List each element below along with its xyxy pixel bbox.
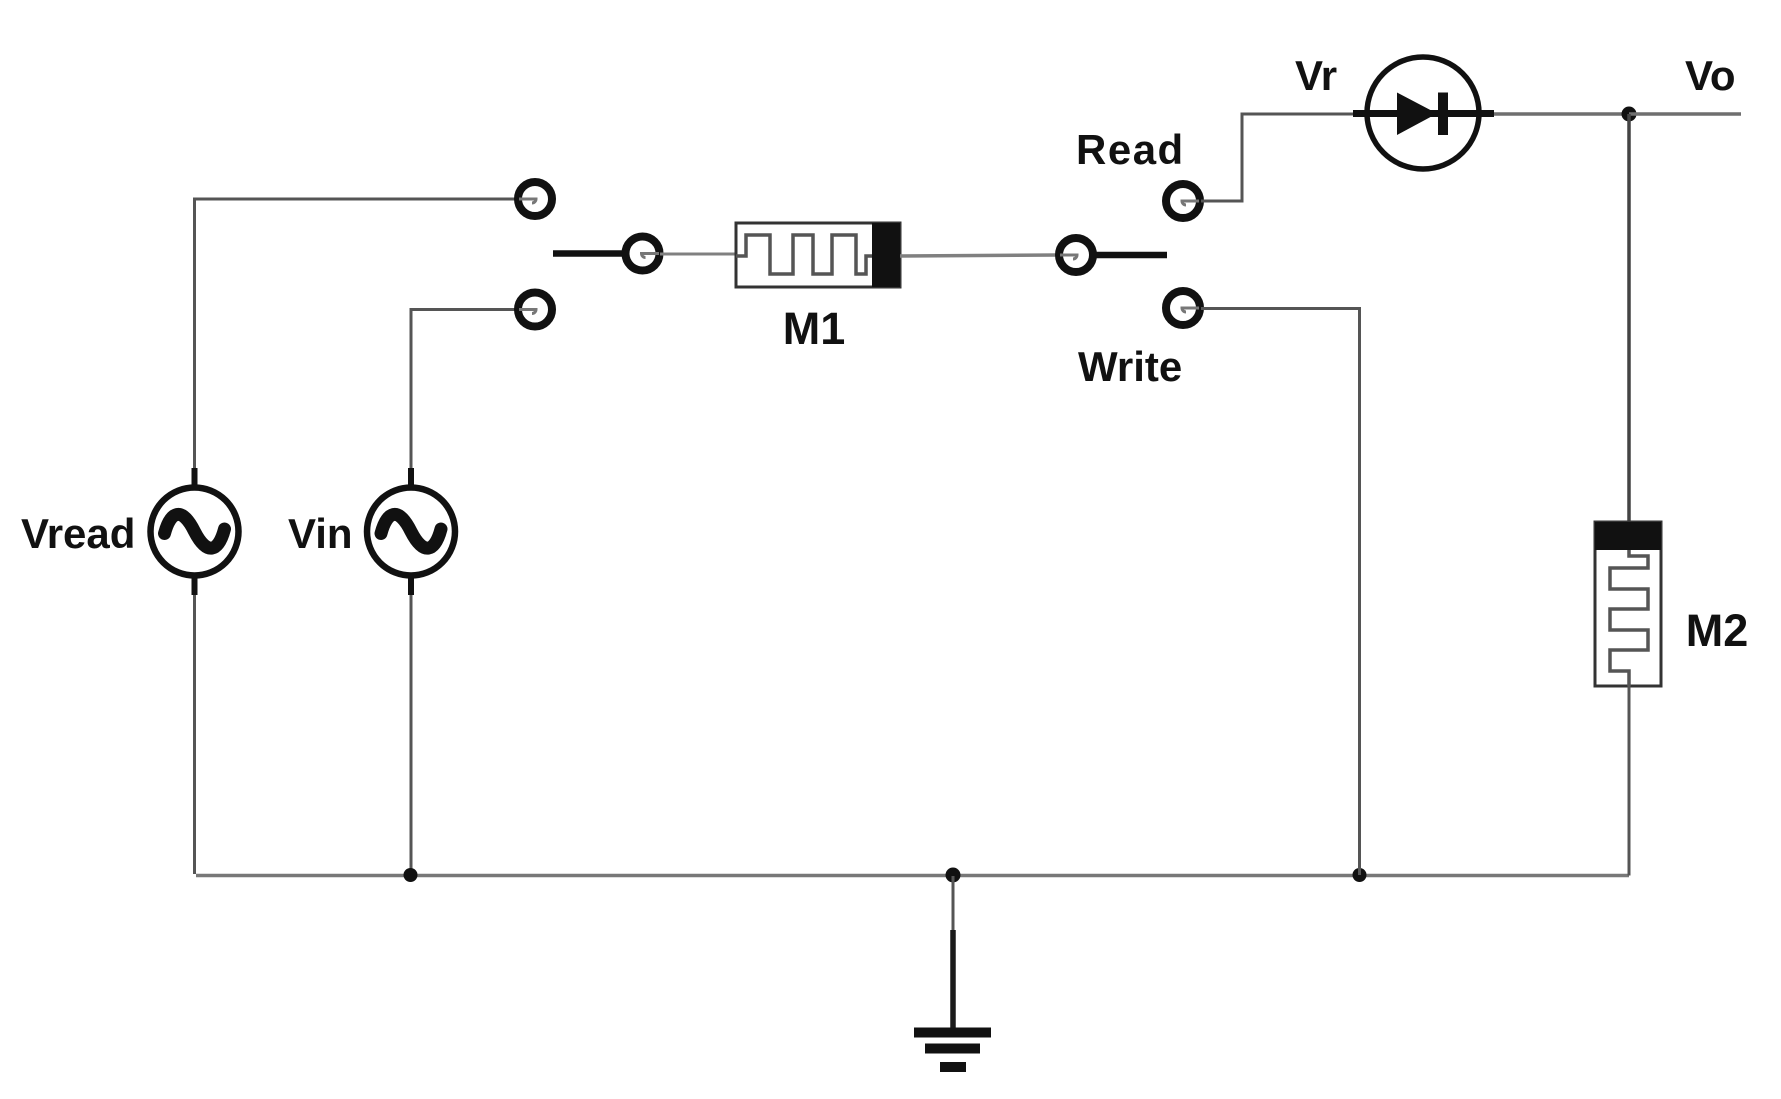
svg-text:Read: Read [1076,126,1185,173]
wire Write elbow down to bus [1201,309,1360,876]
wire Vread to switch S1 throw A [195,199,517,484]
wire S1 pole to M1 [660,253,737,256]
svg-text:Vread: Vread [21,510,135,557]
ground [914,876,991,1072]
wire Vin to switch S1 throw B [411,310,516,485]
switch S2 pole circle [1059,238,1093,272]
voltage source Vin [367,468,455,595]
junction node Write-bottom [1353,868,1367,882]
voltage source Vread [151,468,239,595]
wire Vin bottom vertical [410,576,413,875]
wire bottom bus [196,874,1629,878]
switch S1 pole arm [553,250,624,257]
switch S2 pole arm [1094,252,1167,259]
svg-text:M2: M2 [1686,605,1749,656]
wire M2 bottom to bus [1628,686,1631,876]
svg-text:Vr: Vr [1295,52,1337,99]
wire Vo junction to right [1629,112,1741,116]
switch S2 throw Write circle [1166,291,1200,325]
memristor M1 [736,223,900,287]
junction node Vo [1622,107,1637,122]
wire Vread bottom vertical [193,576,196,874]
wire Vo junction down to M2 [1627,114,1631,523]
wire M1 to S2 pole [900,255,1058,256]
switch S1 throw B circle [518,293,552,327]
wire diode to Vo junction [1494,112,1629,116]
svg-text:Vo: Vo [1685,52,1736,99]
switch S2 throw Read circle [1166,184,1200,218]
switch S1 throw A circle [518,182,552,216]
junction node Vin-bottom [404,868,418,882]
svg-text:Vin: Vin [288,510,353,557]
switch S1 pole circle [626,237,660,271]
memristor M2 [1595,522,1661,686]
junction node ground [946,868,961,883]
wire Read elbow to diode [1201,114,1355,201]
svg-text:Write: Write [1078,343,1182,390]
svg-text:M1: M1 [783,303,846,354]
diode D1 [1353,57,1494,169]
